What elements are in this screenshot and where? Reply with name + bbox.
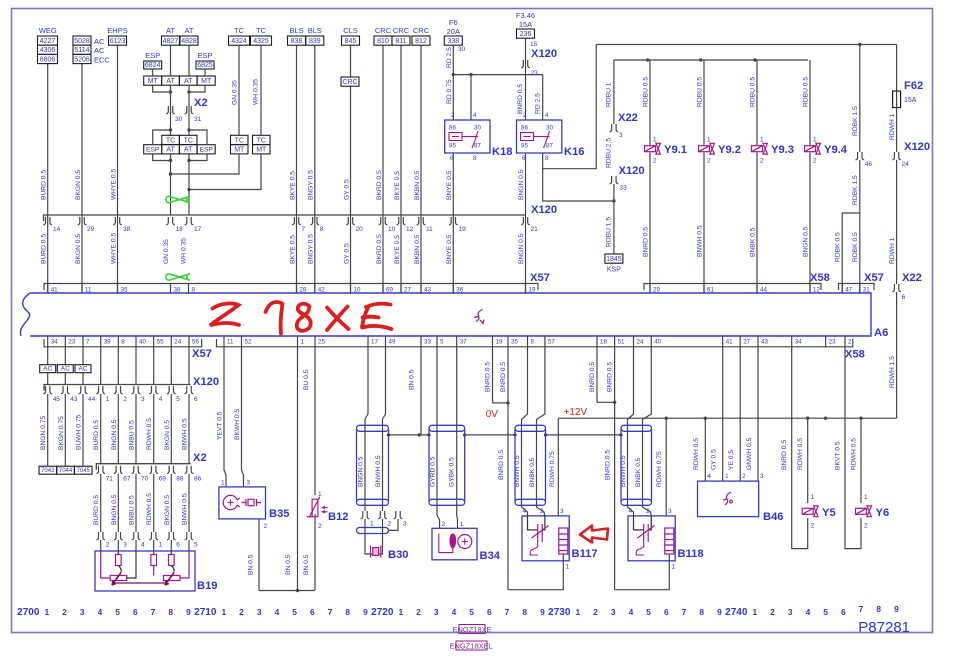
svg-text:20A: 20A xyxy=(447,27,460,36)
svg-text:1: 1 xyxy=(318,491,322,498)
band bottom pin 23 xyxy=(825,336,827,347)
svg-text:15A: 15A xyxy=(904,97,917,104)
wire EHPS column to X57 pin 35 xyxy=(117,45,119,294)
svg-text:845: 845 xyxy=(345,38,357,45)
wire K16 pin4 up xyxy=(542,75,544,120)
svg-text:29: 29 xyxy=(87,226,95,233)
connector X2 lower bar xyxy=(96,464,190,470)
svg-text:B30: B30 xyxy=(388,549,409,561)
svg-text:MT: MT xyxy=(256,147,267,154)
svg-text:24: 24 xyxy=(174,339,181,346)
svg-text:21: 21 xyxy=(531,226,539,233)
svg-text:A6: A6 xyxy=(874,327,888,339)
svg-text:30: 30 xyxy=(474,125,481,132)
connector X2 pin 30 plug xyxy=(166,106,175,114)
svg-text:2: 2 xyxy=(416,607,421,617)
wire band 7 to AC xyxy=(82,347,84,365)
twisted pair symbol lower xyxy=(166,274,190,280)
svg-text:44: 44 xyxy=(760,287,767,294)
band bottom pin 8 xyxy=(527,336,529,347)
band bottom pin 23 xyxy=(64,336,66,347)
svg-text:6: 6 xyxy=(902,294,906,301)
connector X120 pin 1 plug xyxy=(96,386,105,394)
connector X57 top line far right xyxy=(839,284,875,291)
svg-text:X58: X58 xyxy=(810,272,830,284)
sensor B19 pin 5 plug xyxy=(185,532,194,540)
svg-text:2: 2 xyxy=(540,508,544,515)
wire band to X120 lower xyxy=(188,347,190,385)
band bottom pin 24 xyxy=(633,336,635,347)
wire TC/MT left to GN column xyxy=(171,154,240,174)
band top pin 41 xyxy=(47,284,49,294)
svg-text:34: 34 xyxy=(795,339,802,346)
band bottom pin 41 xyxy=(722,336,724,347)
wire band 52 to B35 pin 3 xyxy=(242,347,244,487)
wire WEG column to X57 pin 41 xyxy=(47,64,49,216)
wire Y9.4 to band pin 12 xyxy=(809,153,811,294)
wire band 11 to B35 pin 1 xyxy=(224,347,226,487)
node ESP AT AT ESP option row xyxy=(144,145,162,154)
shield B117 cable xyxy=(515,425,546,431)
svg-text:6825: 6825 xyxy=(197,62,213,69)
svg-text:1: 1 xyxy=(44,607,49,617)
svg-text:6: 6 xyxy=(487,607,492,617)
junction xyxy=(296,589,299,592)
wire band 17 to B30 xyxy=(365,347,368,511)
svg-text:36: 36 xyxy=(456,287,463,294)
svg-text:17: 17 xyxy=(194,226,202,233)
svg-text:43: 43 xyxy=(761,339,768,346)
wire band 23 to AC xyxy=(64,347,66,365)
svg-text:4325: 4325 xyxy=(253,38,269,45)
svg-text:87: 87 xyxy=(474,143,481,150)
svg-text:5: 5 xyxy=(823,607,828,617)
band top pin 43 xyxy=(420,284,422,294)
wire RDBK split xyxy=(842,160,860,293)
svg-text:23: 23 xyxy=(531,70,539,77)
band top pin 8 xyxy=(188,284,190,294)
wire band 43 to B46 pin 3 xyxy=(757,347,759,481)
junction xyxy=(169,90,172,93)
wire branch around ESP left xyxy=(153,130,171,145)
svg-text:BKYE 0.5: BKYE 0.5 xyxy=(394,235,401,264)
svg-text:69: 69 xyxy=(159,476,167,483)
connector X120 pin 10 xyxy=(379,217,388,225)
handwritten Z 78 XE xyxy=(210,302,392,334)
svg-text:1: 1 xyxy=(653,137,657,144)
svg-text:4324: 4324 xyxy=(231,38,247,45)
connector X57 top line xyxy=(44,284,538,291)
wire B118 pin 3 internal xyxy=(668,554,670,561)
band top pin 61 xyxy=(703,284,705,294)
svg-text:42: 42 xyxy=(318,287,325,294)
wire BNRD join xyxy=(493,402,509,404)
band bottom pin 37 xyxy=(456,336,458,347)
wire B118 pin 1 loop xyxy=(615,561,670,590)
connector X2 pin 71 plug xyxy=(96,466,105,474)
svg-text:B34: B34 xyxy=(480,550,501,562)
band bottom pin 40 xyxy=(135,336,137,347)
svg-text:4: 4 xyxy=(545,112,549,119)
svg-text:6: 6 xyxy=(841,607,846,617)
svg-text:4: 4 xyxy=(473,112,477,119)
svg-text:RDWH 0.5: RDWH 0.5 xyxy=(851,438,858,470)
svg-text:TC: TC xyxy=(235,137,244,144)
band bottom pin 55 xyxy=(153,336,155,347)
svg-text:2: 2 xyxy=(760,158,764,165)
band top pin 11 xyxy=(81,284,83,294)
svg-text:BNWH 0.5: BNWH 0.5 xyxy=(620,455,627,487)
svg-text:12: 12 xyxy=(813,287,820,294)
svg-text:4306: 4306 xyxy=(40,47,56,54)
wire 6825 to MT xyxy=(204,69,206,76)
svg-text:AT: AT xyxy=(184,147,193,154)
connector X120 pin 17 plug xyxy=(185,217,194,225)
wire band to X120 lower xyxy=(117,347,119,385)
wire 4828 to AT xyxy=(188,45,190,76)
svg-text:WHYE 0.5: WHYE 0.5 xyxy=(110,233,117,264)
wire 6824 to MT xyxy=(152,69,154,76)
band bottom pin 27 xyxy=(739,336,741,347)
wire F3.46 down xyxy=(525,38,527,120)
svg-text:BNWH 0.5: BNWH 0.5 xyxy=(182,493,189,525)
band top pin 27 xyxy=(400,284,402,294)
wire to X2 pin 30 xyxy=(170,85,172,106)
twisted pair symbol upper xyxy=(166,196,190,202)
connector X120 pin 23 plug xyxy=(521,60,530,68)
svg-text:RDBU 0.5: RDBU 0.5 xyxy=(643,77,650,107)
wire band to X120 lower xyxy=(100,347,102,385)
svg-text:1: 1 xyxy=(672,564,676,571)
svg-text:X57: X57 xyxy=(530,272,550,284)
band top pin 47 xyxy=(841,284,843,294)
band bottom pin 7 xyxy=(82,336,84,347)
band bottom pin 2 xyxy=(844,336,846,347)
band bottom pin 49 xyxy=(385,336,387,347)
svg-text:MT: MT xyxy=(234,147,245,154)
band bottom pin 34 xyxy=(791,336,793,347)
svg-text:3: 3 xyxy=(760,473,764,480)
svg-text:ESP: ESP xyxy=(197,51,212,60)
svg-text:70: 70 xyxy=(141,476,149,483)
svg-text:1: 1 xyxy=(575,607,580,617)
svg-text:85: 85 xyxy=(449,143,456,150)
wire 4827 to AT xyxy=(170,45,172,76)
svg-text:2720: 2720 xyxy=(371,607,394,618)
svg-text:BNBU 0.5: BNBU 0.5 xyxy=(129,495,136,525)
svg-text:AT: AT xyxy=(166,147,175,154)
svg-text:BLS: BLS xyxy=(289,26,303,35)
svg-text:9: 9 xyxy=(186,607,191,617)
svg-text:F6: F6 xyxy=(449,18,458,27)
connector X2 pin 67 plug xyxy=(114,466,123,474)
svg-text:7: 7 xyxy=(151,607,156,617)
svg-text:BKGN 0.5: BKGN 0.5 xyxy=(164,420,171,450)
svg-text:1: 1 xyxy=(301,339,305,346)
connector X120 pin 38 xyxy=(113,217,122,225)
svg-text:2: 2 xyxy=(646,508,650,515)
svg-text:MT: MT xyxy=(201,78,212,85)
svg-text:BNBU 0.5: BNBU 0.5 xyxy=(129,420,136,450)
svg-text:5: 5 xyxy=(194,542,198,549)
svg-text:2740: 2740 xyxy=(725,607,748,618)
connector X120 pin 12 xyxy=(397,217,406,225)
svg-text:BKYE 0.5: BKYE 0.5 xyxy=(289,171,296,200)
connector X2 pin 86 plug xyxy=(185,466,194,474)
svg-text:B117: B117 xyxy=(572,548,598,560)
svg-text:RDWH 0.5: RDWH 0.5 xyxy=(693,438,700,470)
svg-text:BKVT 0.5: BKVT 0.5 xyxy=(835,441,842,470)
node CRC option box xyxy=(341,77,359,86)
svg-text:8: 8 xyxy=(473,155,477,162)
svg-text:RDWH 0.5: RDWH 0.5 xyxy=(797,438,804,470)
node 7043 xyxy=(39,466,57,474)
svg-text:BKYE 0.5: BKYE 0.5 xyxy=(289,235,296,264)
svg-text:AC: AC xyxy=(94,37,105,46)
wire MT branch joins left column xyxy=(153,85,171,92)
band top pin 38 xyxy=(170,284,172,294)
svg-text:2710: 2710 xyxy=(194,607,217,618)
svg-text:6: 6 xyxy=(522,155,526,162)
svg-text:WEG: WEG xyxy=(39,26,57,35)
wire injector Y9.4 supply xyxy=(809,60,811,145)
wire Y9.1 to band pin 29 xyxy=(649,153,651,294)
svg-text:5: 5 xyxy=(176,396,180,403)
svg-text:18: 18 xyxy=(176,226,184,233)
svg-text:RDWH 0.5: RDWH 0.5 xyxy=(146,493,153,525)
svg-text:4: 4 xyxy=(98,607,103,617)
svg-text:7045: 7045 xyxy=(77,468,91,474)
svg-text:B12: B12 xyxy=(328,511,349,523)
svg-text:BNYE 0.5: BNYE 0.5 xyxy=(446,170,453,200)
svg-text:BNRD 0.5: BNRD 0.5 xyxy=(498,450,505,480)
svg-text:BNGN 0.5: BNGN 0.5 xyxy=(803,226,810,257)
svg-text:10: 10 xyxy=(354,287,361,294)
svg-text:23: 23 xyxy=(829,339,836,346)
wire RDWH 0.75 B117 xyxy=(557,418,559,516)
svg-text:19: 19 xyxy=(496,339,503,346)
svg-text:BNGN 0.5: BNGN 0.5 xyxy=(518,233,525,264)
svg-text:86: 86 xyxy=(194,476,202,483)
svg-text:BNGN 0.5: BNGN 0.5 xyxy=(518,169,525,200)
wire CLS 845 column xyxy=(350,45,352,294)
svg-text:BURD 0.5: BURD 0.5 xyxy=(41,170,48,200)
svg-text:6: 6 xyxy=(664,607,669,617)
svg-text:TC: TC xyxy=(256,26,267,35)
svg-text:ESP: ESP xyxy=(200,147,214,154)
band bottom pin 51 xyxy=(614,336,616,347)
connector X120 pin 2 plug xyxy=(114,386,123,394)
svg-text:86: 86 xyxy=(521,125,528,132)
svg-text:Y9.1: Y9.1 xyxy=(664,144,687,156)
svg-text:8: 8 xyxy=(545,155,549,162)
svg-text:RDBK 0.5: RDBK 0.5 xyxy=(835,232,842,262)
connector X120 pin 6 plug xyxy=(185,386,194,394)
svg-text:BKBN 0.5: BKBN 0.5 xyxy=(414,234,421,264)
junction xyxy=(506,401,509,404)
svg-text:87: 87 xyxy=(546,143,553,150)
svg-text:RDBU 1: RDBU 1 xyxy=(606,82,613,107)
svg-text:RDBU 0.5: RDBU 0.5 xyxy=(697,77,704,107)
band bottom pin 52 xyxy=(241,336,243,347)
svg-text:B46: B46 xyxy=(763,511,784,523)
svg-text:8: 8 xyxy=(121,339,125,346)
wire B46 pin 4 supply xyxy=(704,418,706,481)
svg-text:1: 1 xyxy=(566,564,570,571)
svg-text:30: 30 xyxy=(175,116,183,123)
node 7045 xyxy=(75,466,93,474)
connector X120 pin 44 plug xyxy=(79,386,88,394)
svg-text:5206: 5206 xyxy=(74,56,90,63)
svg-text:BNRD 0.5: BNRD 0.5 xyxy=(607,362,614,392)
svg-text:GN 0.35: GN 0.35 xyxy=(232,80,239,105)
svg-text:38: 38 xyxy=(123,226,131,233)
svg-text:31: 31 xyxy=(194,116,202,123)
band bottom pin 34 xyxy=(47,336,49,347)
svg-text:X120: X120 xyxy=(193,376,219,388)
wire Y9.3 to band pin 44 xyxy=(756,153,758,294)
band bottom pin 18 xyxy=(596,336,598,347)
svg-text:GN 0.35: GN 0.35 xyxy=(163,239,170,264)
wire band 40 to B118 pin 2 xyxy=(643,347,652,516)
shield B30 cable xyxy=(357,425,389,431)
svg-text:6: 6 xyxy=(176,542,180,549)
svg-text:55: 55 xyxy=(157,339,164,346)
svg-text:69: 69 xyxy=(386,287,393,294)
svg-text:BKGN 0.5: BKGN 0.5 xyxy=(75,234,82,264)
connector X2 pin 88 plug xyxy=(167,466,176,474)
connector X120 pin 21 plug xyxy=(521,217,530,225)
wire CRC 810 column xyxy=(382,45,384,294)
svg-text:838: 838 xyxy=(291,38,303,45)
svg-text:MT: MT xyxy=(148,78,159,85)
svg-text:X22: X22 xyxy=(618,112,638,124)
svg-text:B35: B35 xyxy=(269,508,290,520)
svg-text:61: 61 xyxy=(707,287,714,294)
svg-text:29: 29 xyxy=(653,287,660,294)
wire B30 drain xyxy=(389,519,399,530)
svg-text:15: 15 xyxy=(530,41,538,48)
svg-text:BNGN 0.5: BNGN 0.5 xyxy=(111,494,118,525)
band top pin 42 xyxy=(314,284,316,294)
svg-text:5: 5 xyxy=(292,607,297,617)
shield B34 cable xyxy=(429,425,465,431)
svg-text:31: 31 xyxy=(863,287,870,294)
svg-text:RDWH 0.5: RDWH 0.5 xyxy=(146,418,153,450)
svg-text:X120: X120 xyxy=(531,204,557,216)
svg-text:1: 1 xyxy=(813,137,817,144)
svg-text:2: 2 xyxy=(864,523,868,530)
wire branch around ESP right xyxy=(189,130,207,145)
svg-text:KSP: KSP xyxy=(607,267,621,274)
wire band 57 to B117 pin 2 xyxy=(537,347,545,516)
svg-text:ESP: ESP xyxy=(145,51,160,60)
svg-text:BURD 0.5: BURD 0.5 xyxy=(41,234,48,264)
svg-text:8: 8 xyxy=(699,607,704,617)
connector X120 lower bar xyxy=(44,385,191,391)
relay K16 xyxy=(517,120,562,153)
svg-text:GYRD 0.5: GYRD 0.5 xyxy=(429,456,436,487)
wire band 51 BNRD B118 xyxy=(614,347,616,590)
svg-text:X22: X22 xyxy=(902,272,922,284)
connector X120 pin 3 plug xyxy=(132,386,141,394)
svg-text:33: 33 xyxy=(424,339,431,346)
svg-text:2: 2 xyxy=(264,523,268,530)
svg-text:8: 8 xyxy=(192,287,196,294)
wire RDBK 1.5 to X120 pin 46 xyxy=(859,45,861,153)
wire CRC 812 column xyxy=(420,45,422,294)
svg-text:30: 30 xyxy=(458,46,466,53)
svg-text:RDBU 0.5: RDBU 0.5 xyxy=(803,77,810,107)
svg-text:RDBK 1.5: RDBK 1.5 xyxy=(852,106,859,136)
wire RDWH 0.75 B118 xyxy=(665,418,667,516)
svg-text:20: 20 xyxy=(356,226,364,233)
svg-text:BUWH 0.75: BUWH 0.75 xyxy=(76,414,83,450)
wire to fuel pump 1845 xyxy=(613,184,615,254)
svg-text:RDBK 0.5: RDBK 0.5 xyxy=(852,232,859,262)
node 7044 xyxy=(57,466,75,474)
svg-text:10: 10 xyxy=(388,226,396,233)
svg-text:9: 9 xyxy=(540,607,545,617)
wire RDWH 1.5 down to 12V rail xyxy=(896,292,898,418)
svg-text:3: 3 xyxy=(434,607,439,617)
svg-text:1: 1 xyxy=(707,137,711,144)
wire band 8 to B117 pin 4 xyxy=(522,347,528,516)
svg-text:BNGN 0.75: BNGN 0.75 xyxy=(40,416,47,450)
svg-text:4: 4 xyxy=(707,473,711,480)
svg-text:CRC: CRC xyxy=(393,26,410,35)
svg-text:YE 0.5: YE 0.5 xyxy=(728,450,735,470)
band bottom pin 35 xyxy=(507,336,509,347)
svg-text:6: 6 xyxy=(194,396,198,403)
band top pin 10 xyxy=(350,284,352,294)
svg-text:5: 5 xyxy=(469,607,474,617)
svg-text:8: 8 xyxy=(345,607,350,617)
wire K16 pin6 down to band pin 19 xyxy=(525,153,527,293)
svg-text:1: 1 xyxy=(752,607,757,617)
connector X120 pin 20 xyxy=(346,217,355,225)
svg-text:47: 47 xyxy=(845,287,852,294)
svg-text:F62: F62 xyxy=(904,80,923,92)
svg-text:1: 1 xyxy=(725,473,729,480)
band top pin 44 xyxy=(756,284,758,294)
wire AC to X120 xyxy=(47,373,49,385)
wire +12V rail xyxy=(558,417,896,419)
svg-text:X2: X2 xyxy=(193,452,207,464)
svg-text:WH 0.35: WH 0.35 xyxy=(181,238,188,264)
svg-text:6824: 6824 xyxy=(145,62,161,69)
svg-text:2: 2 xyxy=(62,607,67,617)
svg-text:1845: 1845 xyxy=(606,256,622,263)
band bottom pin 19 xyxy=(492,336,494,347)
svg-text:71: 71 xyxy=(106,476,114,483)
svg-text:BLS: BLS xyxy=(308,26,322,35)
svg-text:6: 6 xyxy=(133,607,138,617)
svg-text:3: 3 xyxy=(560,508,564,515)
svg-text:WH 0.35: WH 0.35 xyxy=(253,79,260,105)
svg-text:5: 5 xyxy=(646,607,651,617)
connector X120 pin 46 plug xyxy=(855,152,864,160)
svg-text:8: 8 xyxy=(522,607,527,617)
svg-text:67: 67 xyxy=(123,476,131,483)
svg-text:5: 5 xyxy=(115,607,120,617)
svg-text:2: 2 xyxy=(442,521,446,528)
svg-text:52: 52 xyxy=(245,339,252,346)
svg-text:TC: TC xyxy=(166,137,175,144)
svg-text:9: 9 xyxy=(717,607,722,617)
band bottom pin 5 xyxy=(436,336,438,347)
wire to X2 pin 31 xyxy=(188,85,190,106)
